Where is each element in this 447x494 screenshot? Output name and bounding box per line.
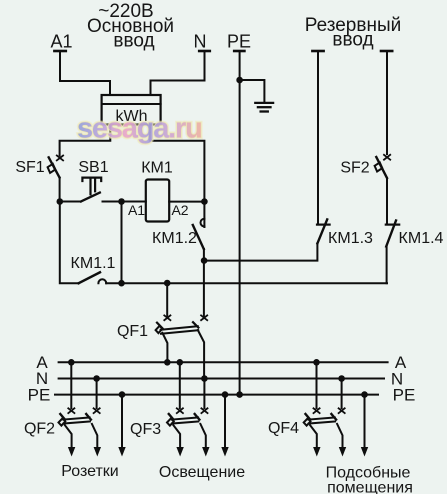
svg-text:КМ1.3: КМ1.3 (328, 230, 373, 247)
ground (255, 103, 273, 112)
switch SF1 (15, 156, 63, 178)
bus PE (28, 385, 416, 404)
svg-text:QF2: QF2 (24, 421, 55, 438)
svg-text:SF1: SF1 (15, 159, 44, 176)
bus N (36, 369, 403, 388)
breaker QF4 (268, 359, 346, 457)
node QF1out-N (201, 375, 208, 382)
wire ground branch (240, 80, 265, 102)
node row2-QF1 (164, 280, 171, 287)
svg-text:QF4: QF4 (268, 420, 299, 437)
terminal N (194, 32, 210, 52)
wire reserve line 1 (317, 51, 319, 224)
label main input (87, 1, 174, 52)
node SF1-SB1 (57, 198, 64, 205)
wire KM1.4 to row2 (386, 246, 388, 283)
svg-text:ввод: ввод (332, 29, 373, 50)
svg-text:Освещение: Освещение (159, 464, 245, 481)
terminal PE (227, 32, 251, 52)
wire row2 (106, 282, 387, 284)
bus A (36, 353, 407, 372)
contactor coil KM1 (128, 160, 189, 222)
terminal reserve 1 (312, 50, 323, 53)
wire A1 to kWh (60, 51, 110, 95)
wire SF1 to junction (59, 178, 61, 202)
meter kWh (102, 95, 161, 125)
node row1 (201, 257, 208, 264)
svg-text:PE: PE (227, 32, 251, 52)
wire reserve line 2 (386, 51, 388, 154)
wire PE vertical (239, 51, 241, 395)
node QF1out-A (164, 359, 171, 366)
svg-text:sesaga.ru: sesaga.ru (77, 113, 202, 145)
node KM1.1 out (118, 280, 125, 287)
svg-text:ввод: ввод (113, 31, 154, 52)
wire PE drop (lighting) (221, 391, 228, 456)
svg-text:QF3: QF3 (130, 421, 161, 438)
svg-text:КМ1.1: КМ1.1 (71, 255, 116, 272)
svg-text:A1: A1 (50, 32, 72, 52)
switch SF2 (340, 155, 390, 178)
breaker QF2 (24, 359, 101, 457)
wire KM1.2 to QF1 (203, 249, 205, 316)
svg-text:Розетки: Розетки (61, 463, 118, 480)
node PE feed (236, 391, 243, 398)
wire row1 to KM1.3 (204, 243, 317, 260)
label utility rooms (326, 465, 413, 494)
svg-text:QF1: QF1 (117, 323, 148, 340)
svg-text:КМ1: КМ1 (141, 160, 173, 177)
svg-text:A1: A1 (128, 202, 145, 218)
wire coil A2 to N line (169, 201, 204, 203)
svg-text:PE: PE (28, 386, 51, 405)
wire kWh right output to N node (150, 125, 205, 228)
pushbutton SB1 (60, 159, 146, 202)
wire kWh left output to SF1 (60, 125, 111, 156)
wire SF2 to KM1.4 (386, 178, 388, 224)
node coil A2 / N (201, 198, 208, 205)
watermark (77, 113, 202, 145)
contact KM1.3 (317, 219, 373, 247)
svg-text:КМ1.2: КМ1.2 (152, 230, 197, 247)
svg-text:SF2: SF2 (340, 160, 369, 177)
wire N to kWh (151, 51, 205, 95)
svg-text:помещения: помещения (327, 480, 413, 494)
terminal reserve 2 (381, 50, 392, 53)
contact KM1.2 (152, 219, 204, 249)
svg-text:PE: PE (393, 385, 416, 404)
svg-text:КМ1.4: КМ1.4 (399, 230, 444, 247)
svg-text:N: N (194, 32, 207, 52)
breaker QF1 (117, 283, 207, 378)
label reserve input (305, 15, 401, 50)
node PE-ground (236, 77, 243, 84)
terminal A1 (50, 32, 72, 52)
svg-text:SB1: SB1 (78, 159, 108, 176)
wire link SB1-KM1.1 (121, 202, 123, 284)
breaker QF3 (130, 359, 209, 457)
svg-text:A2: A2 (171, 202, 188, 218)
contact KM1.1 (60, 202, 116, 284)
wire PE drop (utility) (361, 391, 368, 456)
node SB1 out / coil A1 (118, 198, 125, 205)
wire PE drop (sockets) (118, 391, 125, 456)
contact KM1.4 (386, 221, 444, 248)
